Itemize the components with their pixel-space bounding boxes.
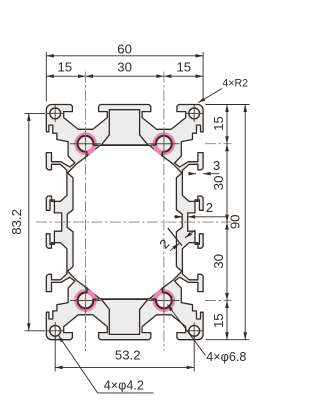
callout 4x phi4.2 xyxy=(58,336,97,393)
hole phi4.2 #1 xyxy=(50,108,61,119)
extrusion profile outer boundary (60x90 cross-section) xyxy=(46,105,203,340)
svg-text:2: 2 xyxy=(206,200,213,215)
slot centerline right column xyxy=(163,72,165,352)
dimension row 15/30/15 top xyxy=(46,75,203,77)
svg-text:4×φ6.8: 4×φ6.8 xyxy=(206,350,246,364)
horizontal centerline mid xyxy=(36,221,232,223)
svg-text:30: 30 xyxy=(211,176,226,191)
hole phi6.8 #3 bore arc xyxy=(78,293,94,309)
svg-text:60: 60 xyxy=(117,41,132,56)
hole phi6.8 #1 gap tails xyxy=(86,152,88,158)
svg-text:3: 3 xyxy=(213,158,220,173)
svg-text:15: 15 xyxy=(211,313,226,328)
centerline upper hole row xyxy=(205,143,232,145)
hole phi6.8 #2 crosshair xyxy=(148,128,179,159)
hole phi6.8 #2 bore arc xyxy=(156,136,172,152)
hole phi4.2 #1 crosshair xyxy=(47,105,64,122)
hole phi4.2 #4 crosshair xyxy=(186,322,203,339)
dimension 53.2 bottom xyxy=(55,366,194,368)
hole phi4.2 #3 xyxy=(50,325,61,336)
hole phi6.8 #1 crosshair xyxy=(70,128,101,159)
extension lines right xyxy=(206,104,250,106)
svg-text:4×φ4.2: 4×φ4.2 xyxy=(104,379,144,393)
dimension 90 right xyxy=(244,105,246,340)
hole phi6.8 #1 pink highlight xyxy=(77,135,95,153)
svg-text:53.2: 53.2 xyxy=(115,348,141,363)
hole phi6.8 #3 pink highlight xyxy=(77,292,95,310)
svg-text:30: 30 xyxy=(117,60,132,75)
dimension 2 (fin foot) xyxy=(174,216,183,218)
svg-text:15: 15 xyxy=(176,60,191,75)
dimension stack right 15/30/30/15 xyxy=(226,105,228,340)
dimension 60 top xyxy=(46,55,203,57)
svg-text:30: 30 xyxy=(211,254,226,269)
central cavity xyxy=(67,145,182,299)
svg-text:15: 15 xyxy=(211,116,226,131)
hole phi6.8 #4 pink highlight xyxy=(155,292,173,310)
extension lines left xyxy=(25,112,46,114)
hole phi4.2 #2 xyxy=(189,108,200,119)
extension lines top xyxy=(45,52,47,102)
dimension 2 (web, diagonal) xyxy=(170,243,179,250)
hole phi6.8 #3 gap tails xyxy=(93,298,99,300)
dimension 83.2 left xyxy=(28,113,30,330)
hole phi6.8 #4 crosshair xyxy=(148,285,179,316)
svg-text:90: 90 xyxy=(228,214,243,229)
hole phi6.8 #3 crosshair xyxy=(70,285,101,316)
hole phi4.2 #3 crosshair xyxy=(47,322,64,339)
dimension 3 (lip wall) xyxy=(189,173,196,175)
svg-text:15: 15 xyxy=(57,60,72,75)
svg-text:4×R2: 4×R2 xyxy=(222,78,248,90)
bottom center fin xyxy=(101,299,147,334)
svg-text:83.2: 83.2 xyxy=(9,209,24,235)
extension lines bottom xyxy=(54,336,56,372)
slot centerline left column xyxy=(85,72,87,352)
callout 4xR2 xyxy=(198,89,222,103)
hole phi6.8 #2 gap tails xyxy=(151,144,157,146)
hole phi6.8 #1 bore arc xyxy=(78,136,94,152)
hole phi6.8 #4 bore arc xyxy=(156,293,172,309)
centerline lower hole row xyxy=(205,300,232,302)
hole phi4.2 #4 xyxy=(189,325,200,336)
callout 4x phi6.8 xyxy=(168,305,206,356)
top center fin xyxy=(101,110,147,145)
hole phi6.8 #4 gap tails xyxy=(161,287,163,293)
hole phi6.8 #2 pink highlight xyxy=(155,135,173,153)
web wall line at lower-right node xyxy=(168,228,182,246)
hole phi4.2 #2 crosshair xyxy=(186,105,203,122)
